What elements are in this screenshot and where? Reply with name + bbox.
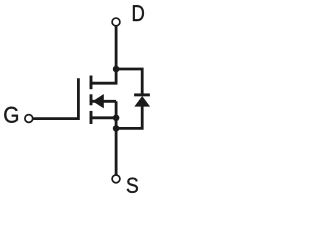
mosfet channel top bar (drain contact) [90, 76, 93, 90]
label G (gate) [4, 107, 18, 123]
diode D1 triangle (anode, pointing up) [134, 96, 150, 107]
wire body arrow horizontal [92, 100, 116, 103]
label D (drain) [133, 5, 144, 21]
wire drain vertical from D terminal down and left to channel top bar [90, 27, 116, 84]
wire source rail vertical [115, 101, 118, 174]
wire source bar horizontal [90, 116, 116, 119]
wire diode top branch [116, 69, 142, 95]
terminal circle G [25, 115, 33, 123]
mosfet channel middle bar (body contact) [90, 94, 93, 105]
mosfet channel bottom bar (source contact) [90, 111, 93, 124]
junction dot drain/diode [113, 66, 120, 73]
junction dot source/diode [113, 125, 120, 132]
diode D1 cathode bar [134, 93, 150, 96]
label S (source) [127, 178, 138, 193]
terminal circle S [112, 175, 120, 183]
terminal circle D [112, 18, 120, 26]
junction dot source/body [113, 115, 120, 122]
wire gate electrode and G lead [33, 78, 78, 118]
wire diode bottom branch [116, 106, 142, 128]
mosfet body arrow (points to gate, N-channel) [93, 94, 104, 108]
